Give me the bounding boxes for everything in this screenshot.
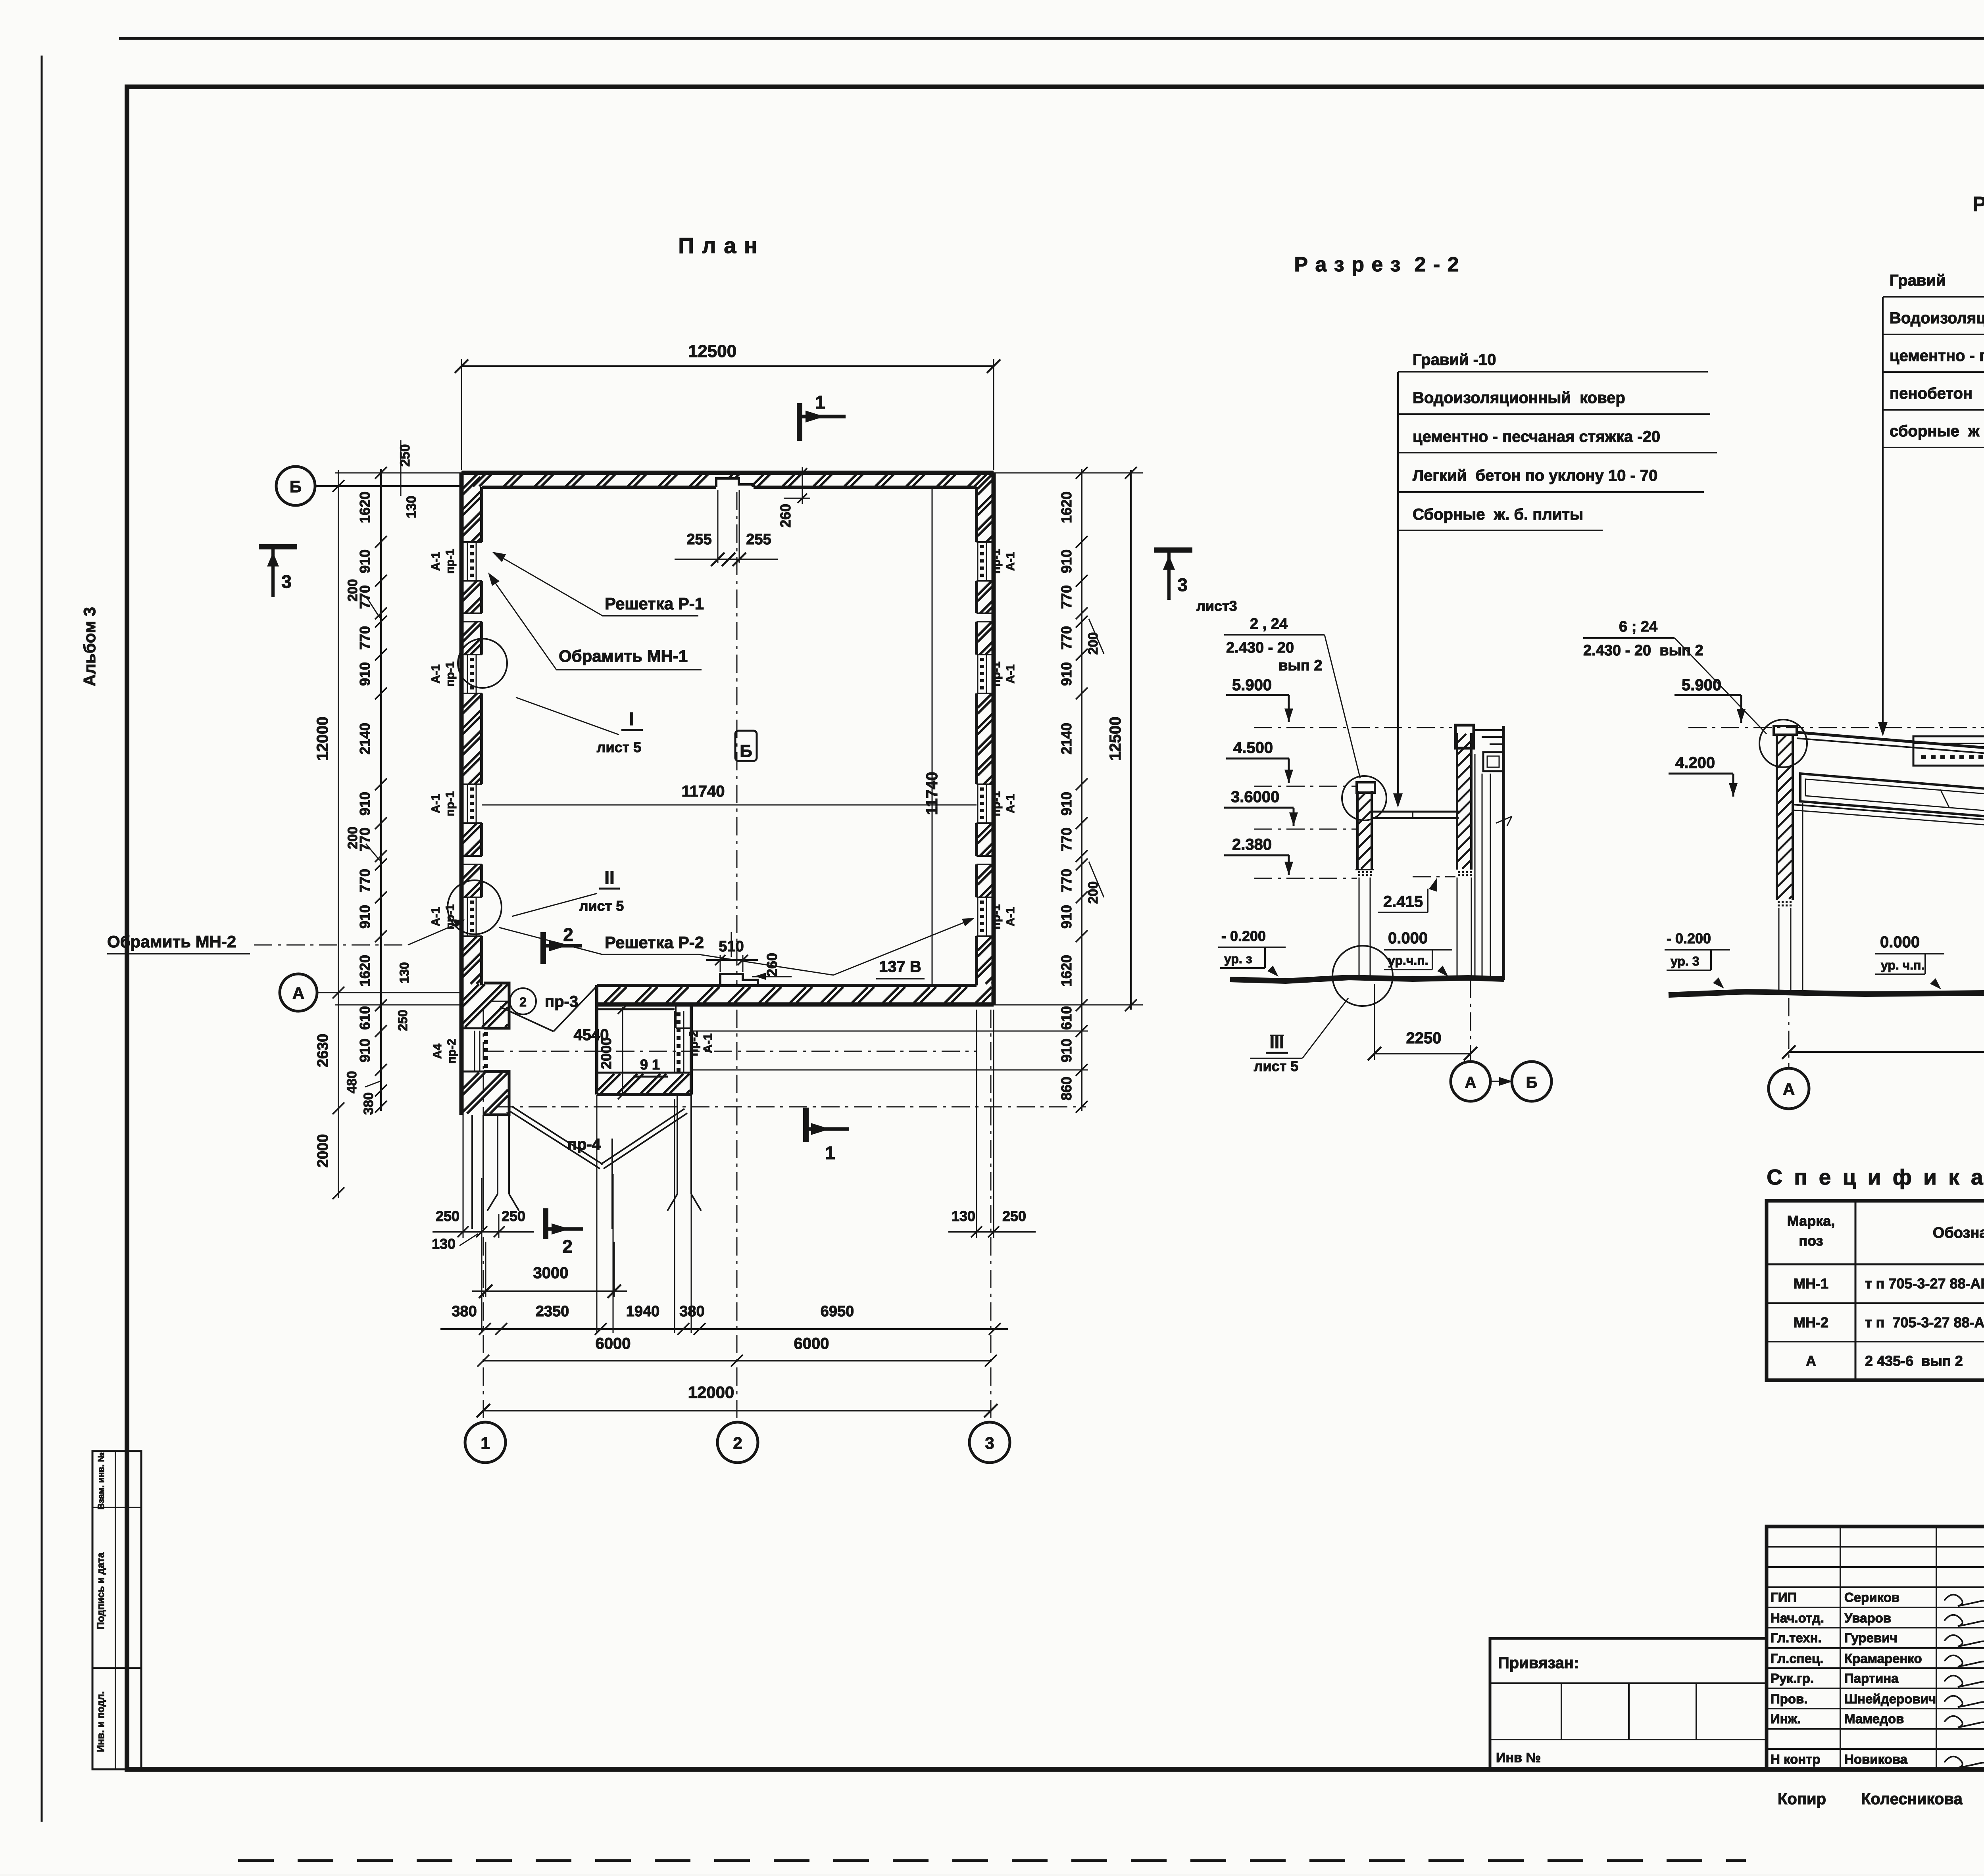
svg-text:Б: Б <box>1526 1074 1538 1091</box>
svg-text:сборные ж б плиты: сборные ж б плиты <box>1890 422 1984 440</box>
svg-text:2 , 24: 2 , 24 <box>1250 616 1288 632</box>
svg-text:Водоизоляционный ковер: Водоизоляционный ковер <box>1413 389 1625 407</box>
svg-text:Инв. и подл.: Инв. и подл. <box>95 1691 106 1752</box>
svg-text:Р а з р е з 1 - 1: Р а з р е з 1 - 1 <box>1972 193 1984 216</box>
svg-text:Крамаренко: Крамаренко <box>1844 1651 1922 1666</box>
svg-text:130: 130 <box>404 496 419 518</box>
svg-text:вып 2: вып 2 <box>1278 657 1322 674</box>
svg-text:12500: 12500 <box>688 342 736 361</box>
svg-text:5.900: 5.900 <box>1682 676 1721 694</box>
svg-text:А: А <box>1783 1080 1795 1098</box>
svg-text:1620: 1620 <box>1058 492 1075 523</box>
svg-text:2.380: 2.380 <box>1232 836 1272 853</box>
svg-text:2.430 - 20: 2.430 - 20 <box>1226 639 1294 656</box>
svg-text:11740: 11740 <box>681 783 725 800</box>
svg-text:А-1: А-1 <box>1004 664 1017 684</box>
svg-text:4.200: 4.200 <box>1675 754 1715 772</box>
svg-text:А-1: А-1 <box>429 552 442 571</box>
svg-text:ур. ч.п.: ур. ч.п. <box>1881 958 1924 972</box>
svg-text:3: 3 <box>1177 574 1188 595</box>
svg-text:11740: 11740 <box>923 772 941 815</box>
svg-text:А: А <box>1806 1353 1816 1369</box>
svg-text:130: 130 <box>952 1208 975 1224</box>
svg-text:лист 5: лист 5 <box>597 739 642 755</box>
svg-text:- 0.200: - 0.200 <box>1667 930 1711 947</box>
svg-text:6000: 6000 <box>596 1335 631 1352</box>
svg-text:пр-1: пр-1 <box>990 661 1003 686</box>
svg-text:А-1: А-1 <box>1004 794 1017 813</box>
svg-text:пр-4: пр-4 <box>567 1136 601 1153</box>
svg-text:Гуревич: Гуревич <box>1844 1630 1897 1645</box>
svg-text:пр-2: пр-2 <box>686 1030 700 1056</box>
svg-text:Мамедов: Мамедов <box>1844 1711 1904 1726</box>
svg-text:2000: 2000 <box>315 1134 331 1168</box>
svg-text:2: 2 <box>562 1236 573 1257</box>
svg-text:лист 5: лист 5 <box>579 898 624 914</box>
svg-text:200: 200 <box>1086 632 1101 655</box>
svg-text:5.900: 5.900 <box>1232 676 1272 694</box>
svg-text:1620: 1620 <box>357 492 373 523</box>
svg-text:Нач.отд.: Нач.отд. <box>1771 1611 1824 1625</box>
svg-text:Подпись и дата: Подпись и дата <box>95 1552 106 1629</box>
svg-text:II: II <box>604 867 615 888</box>
svg-text:А-1: А-1 <box>429 664 442 684</box>
svg-text:610: 610 <box>357 1006 373 1030</box>
svg-text:6000: 6000 <box>794 1335 829 1352</box>
svg-text:130: 130 <box>432 1236 456 1252</box>
svg-text:т п 705-3-27 88-АРИ -МН-2: т п 705-3-27 88-АРИ -МН-2 <box>1865 1314 1984 1331</box>
svg-text:1620: 1620 <box>1058 955 1075 987</box>
svg-text:А-1: А-1 <box>1004 552 1017 571</box>
svg-text:6950: 6950 <box>821 1303 854 1320</box>
svg-text:770: 770 <box>1058 828 1075 851</box>
svg-text:770: 770 <box>357 869 373 893</box>
svg-text:Взам. инв. №: Взам. инв. № <box>96 1452 106 1509</box>
svg-text:2.430 - 20 вып 2: 2.430 - 20 вып 2 <box>1583 642 1703 659</box>
svg-text:МН-1: МН-1 <box>1794 1275 1828 1292</box>
svg-text:А: А <box>1465 1074 1476 1091</box>
svg-text:2140: 2140 <box>1058 723 1075 755</box>
svg-text:ур. 3: ур. 3 <box>1671 954 1699 968</box>
svg-text:2 435-6 вып 2: 2 435-6 вып 2 <box>1865 1353 1963 1369</box>
svg-text:910: 910 <box>357 549 373 573</box>
svg-text:Обозначение: Обозначение <box>1933 1225 1984 1241</box>
svg-text:Инж.: Инж. <box>1771 1711 1801 1726</box>
svg-text:200: 200 <box>345 579 360 602</box>
svg-text:910: 910 <box>1058 792 1075 816</box>
svg-text:Рук.гр.: Рук.гр. <box>1771 1671 1814 1686</box>
svg-text:пр-3: пр-3 <box>545 993 578 1010</box>
svg-text:А: А <box>292 984 304 1002</box>
svg-text:255: 255 <box>746 531 771 548</box>
svg-text:ур.ч.п.: ур.ч.п. <box>1388 953 1428 968</box>
svg-text:ур. з: ур. з <box>1224 952 1252 966</box>
svg-text:Решетка Р-1: Решетка Р-1 <box>605 594 704 613</box>
svg-text:Копир: Копир <box>1778 1790 1826 1808</box>
svg-text:2: 2 <box>519 995 527 1009</box>
svg-text:6 ; 24: 6 ; 24 <box>1619 618 1657 635</box>
svg-text:910: 910 <box>357 792 373 816</box>
svg-text:Обрамить МН-1: Обрамить МН-1 <box>559 647 688 665</box>
svg-text:2630: 2630 <box>315 1034 331 1068</box>
svg-text:Гравий -10: Гравий -10 <box>1413 351 1496 369</box>
svg-text:910: 910 <box>1058 662 1075 686</box>
svg-text:Б: Б <box>290 477 302 496</box>
svg-text:380: 380 <box>452 1303 477 1320</box>
svg-text:Б: Б <box>740 741 752 761</box>
svg-text:255: 255 <box>686 531 711 548</box>
svg-text:Решетка Р-2: Решетка Р-2 <box>605 933 704 952</box>
svg-text:С п е ц и ф и к а ц и я з а: С п е ц и ф и к а ц и я з а к л а д н ы … <box>1767 1165 1984 1189</box>
svg-text:3000: 3000 <box>533 1264 569 1282</box>
svg-text:пр-1: пр-1 <box>990 904 1003 929</box>
svg-text:пр-1: пр-1 <box>444 549 457 574</box>
svg-text:А4: А4 <box>431 1044 444 1059</box>
svg-text:250: 250 <box>502 1208 525 1224</box>
svg-text:770: 770 <box>1058 869 1075 893</box>
svg-text:12000: 12000 <box>688 1383 734 1402</box>
svg-text:910: 910 <box>1058 905 1075 929</box>
svg-text:лист3: лист3 <box>1196 598 1237 614</box>
svg-text:2: 2 <box>733 1434 742 1452</box>
svg-text:А-1: А-1 <box>429 907 442 926</box>
svg-text:Легкий бетон по уклону 10 - 7: Легкий бетон по уклону 10 - 70 <box>1413 467 1657 484</box>
svg-text:260: 260 <box>764 953 780 977</box>
svg-text:А-1: А-1 <box>1004 907 1017 926</box>
svg-text:3: 3 <box>985 1434 994 1452</box>
svg-text:1940: 1940 <box>626 1303 660 1320</box>
svg-text:пенобетон: пенобетон <box>1890 385 1972 402</box>
svg-text:цементно - песчаная стяжка -20: цементно - песчаная стяжка -20 <box>1413 428 1660 445</box>
svg-text:0.000: 0.000 <box>1388 929 1428 947</box>
svg-text:9 1: 9 1 <box>640 1056 660 1073</box>
svg-text:1620: 1620 <box>357 955 373 987</box>
svg-text:12500: 12500 <box>1107 716 1124 760</box>
svg-text:Сериков: Сериков <box>1844 1590 1899 1605</box>
svg-text:130: 130 <box>397 962 411 983</box>
svg-text:910: 910 <box>357 1039 373 1062</box>
svg-text:2350: 2350 <box>536 1303 569 1320</box>
svg-text:0.000: 0.000 <box>1880 933 1920 951</box>
svg-text:Н контр: Н контр <box>1771 1752 1821 1767</box>
svg-text:А-1: А-1 <box>701 1033 715 1053</box>
svg-text:Альбом 3: Альбом 3 <box>80 607 99 686</box>
svg-text:пр-1: пр-1 <box>444 661 457 686</box>
svg-text:Р а з р е з 2 - 2: Р а з р е з 2 - 2 <box>1294 253 1459 276</box>
svg-text:2.415: 2.415 <box>1383 893 1423 910</box>
svg-text:I: I <box>629 709 634 729</box>
svg-text:2000: 2000 <box>598 1037 614 1069</box>
svg-text:910: 910 <box>357 905 373 929</box>
svg-text:Водоизоляционный ковер: Водоизоляционный ковер <box>1890 309 1984 327</box>
svg-text:Обрамить МН-2: Обрамить МН-2 <box>107 932 236 951</box>
svg-text:2: 2 <box>563 924 573 945</box>
svg-text:Сборные ж. б. плиты: Сборные ж. б. плиты <box>1413 506 1583 523</box>
svg-text:Партина: Партина <box>1844 1671 1899 1686</box>
svg-text:П л а н: П л а н <box>678 233 758 258</box>
svg-text:770: 770 <box>1058 585 1075 609</box>
svg-text:2250: 2250 <box>1406 1029 1442 1047</box>
svg-text:МН-2: МН-2 <box>1794 1314 1828 1331</box>
svg-text:260: 260 <box>777 504 794 528</box>
svg-text:380: 380 <box>679 1303 704 1320</box>
svg-text:250: 250 <box>396 1010 410 1031</box>
svg-text:1: 1 <box>481 1434 490 1452</box>
svg-text:Инв №: Инв № <box>1496 1750 1541 1765</box>
svg-text:137 В: 137 В <box>879 958 921 975</box>
svg-text:пр-1: пр-1 <box>990 791 1003 816</box>
svg-text:860: 860 <box>1058 1077 1075 1100</box>
svg-text:3.6000: 3.6000 <box>1231 788 1279 806</box>
svg-text:910: 910 <box>1058 1039 1075 1062</box>
svg-text:А-1: А-1 <box>429 794 442 813</box>
svg-text:Марка,: Марка, <box>1787 1213 1835 1229</box>
svg-text:Уваров: Уваров <box>1844 1611 1891 1625</box>
svg-text:480: 480 <box>344 1071 360 1094</box>
svg-text:т п 705-3-27 88-АРИ -МН-1: т п 705-3-27 88-АРИ -МН-1 <box>1865 1275 1984 1292</box>
svg-text:цементно - песчаная стяжка -: цементно - песчаная стяжка - 20 <box>1890 347 1984 365</box>
svg-text:910: 910 <box>1058 549 1075 573</box>
svg-text:770: 770 <box>1058 626 1075 650</box>
svg-text:250: 250 <box>398 444 413 467</box>
svg-text:12000: 12000 <box>314 716 331 760</box>
svg-text:610: 610 <box>1058 1006 1075 1030</box>
svg-text:1: 1 <box>825 1142 835 1163</box>
svg-text:250: 250 <box>1002 1208 1026 1224</box>
svg-text:Гл.спец.: Гл.спец. <box>1771 1651 1823 1666</box>
svg-text:- 0.200: - 0.200 <box>1221 928 1266 944</box>
svg-text:ГИП: ГИП <box>1771 1590 1797 1605</box>
svg-text:4.500: 4.500 <box>1233 739 1273 757</box>
svg-text:910: 910 <box>357 662 373 686</box>
svg-text:Колесникова: Колесникова <box>1861 1790 1963 1808</box>
svg-text:Шнейдерович: Шнейдерович <box>1844 1692 1936 1706</box>
svg-text:380: 380 <box>361 1093 376 1115</box>
svg-text:2140: 2140 <box>357 723 373 755</box>
svg-text:Пров.: Пров. <box>1771 1692 1808 1706</box>
svg-text:поз: поз <box>1799 1233 1823 1249</box>
svg-text:1: 1 <box>815 392 825 413</box>
svg-text:200: 200 <box>345 827 360 849</box>
svg-text:770: 770 <box>357 626 373 650</box>
svg-text:Гравий: Гравий <box>1890 272 1946 289</box>
svg-text:Привязан:: Привязан: <box>1498 1654 1579 1672</box>
svg-text:пр-2: пр-2 <box>445 1039 458 1064</box>
svg-text:пр-1: пр-1 <box>990 549 1003 574</box>
svg-text:Гл.техн.: Гл.техн. <box>1771 1630 1822 1645</box>
svg-text:лист 5: лист 5 <box>1254 1058 1299 1074</box>
svg-text:3: 3 <box>281 571 292 592</box>
svg-text:250: 250 <box>436 1208 459 1224</box>
svg-text:Новикова: Новикова <box>1844 1752 1908 1767</box>
svg-text:пр-1: пр-1 <box>444 791 457 816</box>
